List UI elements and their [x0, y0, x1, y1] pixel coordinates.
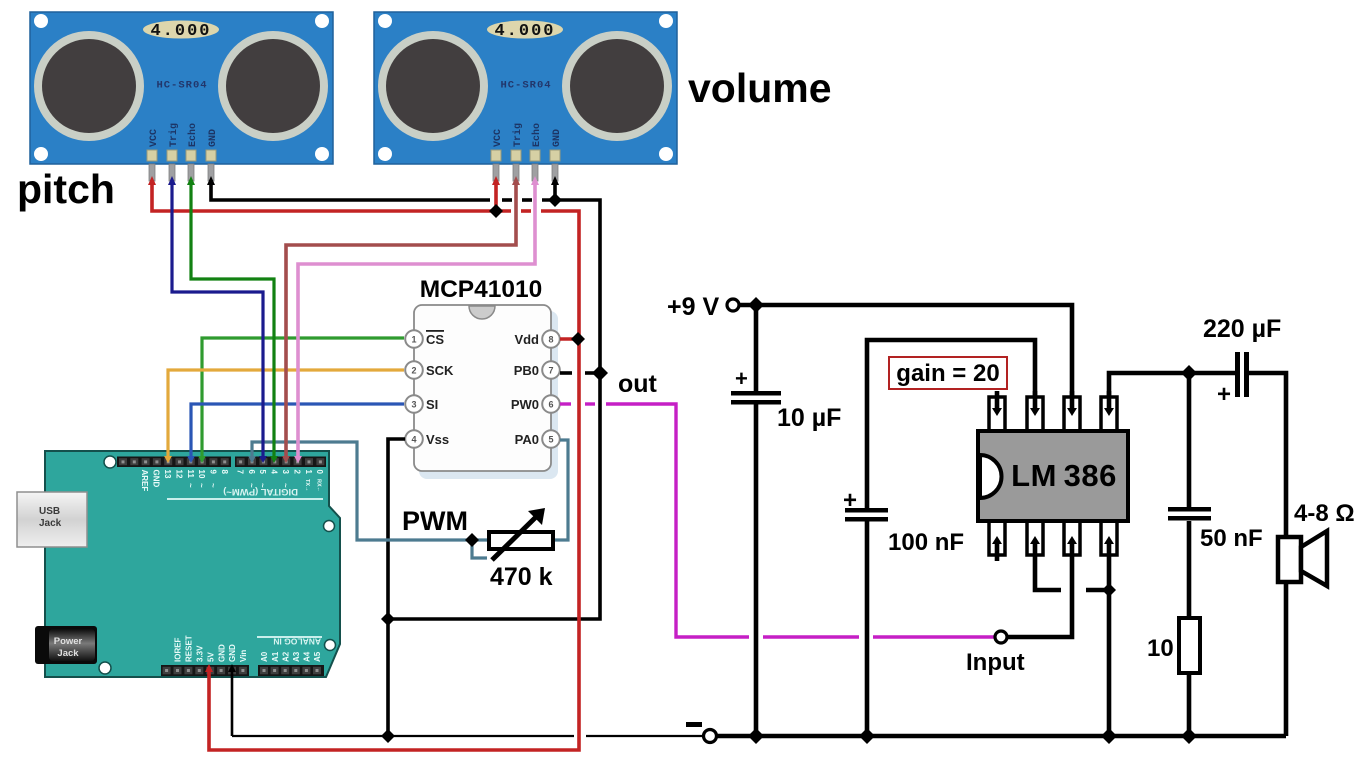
- junction node: output to zobel: [1181, 365, 1197, 381]
- svg-text:6: 6: [247, 470, 256, 475]
- svg-text:~: ~: [186, 483, 195, 488]
- label out: [618, 370, 658, 398]
- svg-text:TX→: TX→: [304, 479, 310, 492]
- label 10 uF: [777, 404, 841, 432]
- svg-text:220 µF: 220 µF: [1203, 315, 1281, 343]
- svg-text:CS: CS: [426, 332, 444, 347]
- ultrasonic sensor module U2 (pitch) HC-SR04: [30, 12, 333, 181]
- svg-text:7: 7: [235, 470, 244, 475]
- junction node: pot wiper tap: [465, 533, 479, 547]
- arrowheads into Arduino header: [164, 456, 172, 463]
- svg-text:10 µF: 10 µF: [777, 404, 841, 432]
- svg-text:SCK: SCK: [426, 363, 454, 378]
- U1 pin 5 PA0: [515, 430, 560, 448]
- svg-text:Power: Power: [54, 636, 83, 647]
- junction node: ground LM386 pins: [1101, 728, 1117, 744]
- svg-text:RX←: RX←: [316, 479, 322, 492]
- svg-text:12: 12: [174, 470, 183, 479]
- svg-text:USB: USB: [39, 506, 60, 517]
- wire 220uF to speaker: [1249, 373, 1286, 537]
- junction node: ground 100nF: [859, 728, 875, 744]
- wire Trig1 navy: sensor1 Trig to Arduino pin5: [172, 180, 263, 456]
- wire LM386 pin7 bypass to 100nF: [867, 340, 1035, 736]
- svg-text:Vdd: Vdd: [514, 332, 539, 347]
- svg-text:5V: 5V: [206, 652, 215, 662]
- svg-text:4: 4: [270, 470, 279, 475]
- junction node: PB0 out on black vertical: [592, 365, 608, 381]
- svg-text:A4: A4: [303, 651, 312, 662]
- svg-text:+: +: [1217, 381, 1231, 408]
- svg-text:9: 9: [209, 470, 218, 475]
- svg-text:SI: SI: [426, 397, 438, 412]
- svg-text:3.3V: 3.3V: [196, 645, 205, 662]
- junction node: +9V tap: [748, 297, 764, 313]
- svg-text:100 nF: 100 nF: [888, 529, 964, 556]
- label 10: [1147, 635, 1174, 662]
- junction node: sensor2 VCC on +5V rail: [489, 204, 503, 218]
- svg-text:8: 8: [220, 470, 229, 475]
- svg-text:5: 5: [548, 435, 553, 445]
- svg-text:1: 1: [304, 470, 313, 475]
- junction node: ground zobel: [1181, 728, 1197, 744]
- svg-text:+: +: [735, 366, 748, 391]
- svg-text:GND: GND: [152, 470, 161, 488]
- svg-text:Vss: Vss: [426, 432, 449, 447]
- label MCP41010: [420, 276, 543, 303]
- svg-text:AREF: AREF: [140, 470, 149, 492]
- label pitch: [17, 166, 115, 212]
- svg-text:PW0: PW0: [511, 397, 539, 412]
- arrowhead VCC sensor2: [492, 176, 500, 185]
- wire GND net: sensor1 GND to rail, down to Vss column and ground: [211, 180, 600, 736]
- junction node: Vdd on red vertical: [571, 332, 585, 346]
- U1 pin 6 PW0: [511, 395, 560, 413]
- svg-text:10: 10: [1147, 635, 1174, 662]
- svg-text:PA0: PA0: [515, 432, 539, 447]
- svg-text:IOREF: IOREF: [174, 637, 183, 662]
- svg-text:7: 7: [548, 366, 553, 376]
- wire PWM teal net: Arduino pin6 loop to 470k pot: [252, 440, 568, 558]
- U1 pin 2 SCK: [405, 361, 454, 379]
- svg-text:Input: Input: [966, 649, 1025, 676]
- junction node: Vss column at y619: [381, 612, 395, 626]
- digital header strip left (AREF GND 13..8): [117, 457, 231, 468]
- wire PW0 magenta: MCP pin6 to LM386 input: [560, 404, 994, 637]
- svg-text:~: ~: [197, 483, 206, 488]
- svg-text:~: ~: [209, 483, 218, 488]
- power/analog pin labels: [174, 635, 323, 662]
- label 4-8 ohm: [1294, 500, 1355, 527]
- svg-text:1: 1: [411, 335, 416, 345]
- power jack: [35, 626, 97, 664]
- svg-text:4-8 Ω: 4-8 Ω: [1294, 500, 1355, 527]
- svg-text:out: out: [618, 370, 658, 398]
- +9V supply rail and vertical to 10uF: [740, 305, 1072, 736]
- svg-text:PWM: PWM: [402, 506, 468, 536]
- svg-text:RESET: RESET: [185, 635, 194, 662]
- wire CS green: MCP pin1 to Arduino pin10: [202, 338, 404, 456]
- wire Trig2 dark red: sensor2 Trig to Arduino pin3: [286, 180, 516, 456]
- arrowhead Trig2: [512, 176, 520, 185]
- svg-text:13: 13: [163, 470, 172, 479]
- svg-text:10: 10: [197, 470, 206, 479]
- U1 pin 8 Vdd: [514, 330, 559, 348]
- arrowhead GND arduino: [228, 664, 236, 672]
- arrowhead GND sensor1: [207, 176, 215, 185]
- wire +5V net: sensor VCC rail, red vertical, Arduino 5V: [152, 180, 579, 750]
- svg-text:6: 6: [548, 400, 553, 410]
- ultrasonic sensor module U3 (volume) HC-SR04: [374, 12, 677, 181]
- zobel branch: 50nF + 10 ohm: [1187, 373, 1192, 736]
- junction node: pin2/pin4 bottom: [1102, 583, 1116, 597]
- USB jack: [17, 492, 87, 547]
- DIGITAL (PWM~) silk: [167, 486, 323, 500]
- U1 pin 7 PB0: [514, 361, 560, 379]
- U4 pin stubs top (gain NC, bypass, Vs, out): [997, 391, 1109, 409]
- svg-text:Vin: Vin: [239, 650, 248, 662]
- digital potentiometer U1 MCP41010: [414, 305, 558, 479]
- Arduino Uno board A1: [45, 451, 340, 677]
- ANALOG IN silk: [257, 636, 322, 647]
- label 220 uF: [1203, 315, 1281, 343]
- arrowhead VCC sensor1: [148, 176, 156, 185]
- svg-text:3: 3: [281, 470, 290, 475]
- U4 pin stubs bottom: [997, 543, 1110, 736]
- arrowhead Echo1: [187, 176, 195, 185]
- svg-text:A5: A5: [313, 651, 322, 662]
- svg-text:A3: A3: [292, 651, 301, 662]
- svg-text:3: 3: [411, 400, 416, 410]
- arrowhead Trig1: [168, 176, 176, 185]
- svg-text:volume: volume: [688, 65, 832, 111]
- gain box: [889, 357, 1007, 389]
- junction node: ground 10uF: [748, 728, 764, 744]
- svg-text:470 k: 470 k: [490, 563, 553, 591]
- junction node: sensor2 GND on GND rail: [548, 193, 562, 207]
- label +9 V: [667, 293, 719, 321]
- resistor R1 10: [1179, 618, 1200, 673]
- digital header strip right (7..0): [235, 457, 326, 468]
- audio amplifier U4 LM386: [978, 397, 1128, 555]
- U1 pin 1 CS: [405, 330, 444, 348]
- svg-text:4: 4: [411, 435, 416, 445]
- svg-text:+9 V: +9 V: [667, 293, 719, 321]
- svg-text:11: 11: [186, 470, 195, 479]
- digital pin labels: [140, 470, 324, 493]
- svg-text:MCP41010: MCP41010: [420, 276, 543, 303]
- label volume: [688, 65, 832, 111]
- U1 pin 4 Vss: [405, 430, 449, 448]
- speaker LS1: [1278, 531, 1327, 736]
- svg-text:DIGITAL (PWM~): DIGITAL (PWM~): [223, 486, 298, 497]
- svg-text:LM 386: LM 386: [1011, 458, 1117, 493]
- svg-text:GND: GND: [217, 644, 226, 662]
- arrowhead GND sensor2: [551, 176, 559, 185]
- power header strip (IOREF..Vin): [161, 665, 249, 676]
- junction node: ground x388: [381, 729, 395, 743]
- svg-text:PB0: PB0: [514, 363, 539, 378]
- svg-text:2: 2: [292, 470, 301, 475]
- svg-text:+: +: [843, 487, 857, 514]
- wire Echo1 dark green: sensor1 Echo to Arduino pin4: [191, 180, 274, 456]
- capacitor C1 10uF: [731, 366, 781, 405]
- arrowhead 5V arduino: [205, 664, 213, 672]
- svg-text:pitch: pitch: [17, 166, 115, 212]
- svg-text:A2: A2: [281, 651, 290, 662]
- terminal +9V open circle: [727, 299, 739, 311]
- svg-text:gain = 20: gain = 20: [896, 360, 999, 387]
- ground rail: [232, 667, 1286, 736]
- analog header strip (A0..A5): [258, 665, 324, 676]
- LM386 output wire pin5 to 220uF junction: [1109, 373, 1235, 411]
- terminal minus open circle: [686, 722, 717, 743]
- capacitor C3 50nF: [1168, 507, 1211, 521]
- svg-text:2: 2: [411, 366, 416, 376]
- svg-text:Jack: Jack: [39, 518, 62, 529]
- svg-text:50 nF: 50 nF: [1200, 525, 1263, 552]
- potentiometer R2 470k body: [489, 508, 553, 560]
- terminal Input open circle: [995, 631, 1007, 643]
- svg-text:5: 5: [258, 470, 267, 475]
- svg-text:Jack: Jack: [57, 648, 79, 659]
- capacitor C2 100nF: [843, 487, 888, 522]
- wire SI blue: MCP pin3 to Arduino pin11: [191, 404, 404, 456]
- svg-text:A1: A1: [271, 651, 280, 662]
- label 50 nF: [1200, 525, 1263, 552]
- label PWM: [402, 506, 468, 536]
- U1 pin 3 SI: [405, 395, 438, 413]
- label Input: [966, 649, 1025, 676]
- wire PB0 out: MCP pin7 to black bus (dashed over red): [560, 371, 596, 375]
- svg-text:A0: A0: [260, 651, 269, 662]
- wire Echo2 pink: sensor2 Echo to Arduino pin2: [298, 180, 535, 456]
- capacitor C4 220uF: [1217, 352, 1249, 408]
- label 470 k: [490, 563, 553, 591]
- svg-text:8: 8: [548, 335, 553, 345]
- arrowhead Echo2: [531, 176, 539, 185]
- svg-text:0: 0: [315, 470, 324, 475]
- label 100 nF: [888, 529, 964, 556]
- svg-text:GND: GND: [228, 644, 237, 662]
- wire SCK orange: MCP pin2 to Arduino pin13: [168, 370, 404, 456]
